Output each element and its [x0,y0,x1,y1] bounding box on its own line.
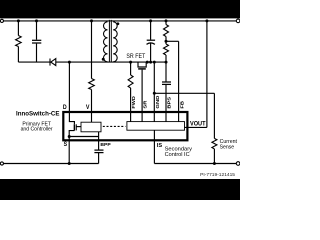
svg-text:IS: IS [157,143,163,149]
svg-text:FWD: FWD [131,96,136,108]
svg-text:SR FET: SR FET [126,53,145,60]
svg-text:Control IC: Control IC [165,152,190,158]
svg-text:Sense: Sense [220,144,235,150]
svg-text:VOUT: VOUT [190,122,206,128]
svg-text:S: S [64,142,68,148]
svg-text:PI-7719-121415: PI-7719-121415 [200,172,235,177]
svg-text:and Controller: and Controller [21,127,53,133]
svg-text:BPP: BPP [100,142,110,147]
svg-text:BPS: BPS [166,97,171,109]
svg-text:SR: SR [143,100,148,109]
svg-text:V: V [86,105,90,111]
svg-text:D: D [63,105,67,111]
svg-text:GND: GND [155,96,160,109]
svg-text:FB: FB [180,101,185,109]
svg-text:InnoSwitch-CE: InnoSwitch-CE [16,110,60,117]
